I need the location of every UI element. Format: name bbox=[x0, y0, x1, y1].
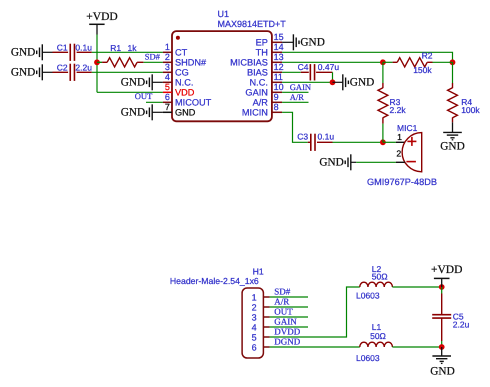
svg-text:SD#: SD# bbox=[274, 287, 291, 297]
svg-text:GND: GND bbox=[175, 108, 196, 118]
power +VDD (top) bbox=[86, 11, 117, 34]
svg-text:R1: R1 bbox=[110, 43, 121, 53]
svg-text:CG: CG bbox=[175, 68, 189, 78]
svg-text:MICBIAS: MICBIAS bbox=[230, 58, 268, 68]
wire L2 to +VDD node bbox=[392, 286, 441, 288]
ground GND (pin 4 N.C.) bbox=[121, 74, 163, 90]
pin 13 MICBIAS (U1 right) bbox=[230, 52, 283, 68]
node GND junction (bottom) bbox=[439, 344, 445, 350]
wire MICIN to C3 bbox=[282, 112, 308, 142]
wire A/R stub (H1) bbox=[270, 306, 308, 308]
svg-text:7: 7 bbox=[165, 102, 170, 112]
svg-text:DVDD: DVDD bbox=[274, 327, 300, 337]
wire GAIN stub (H1) bbox=[270, 326, 308, 328]
svg-text:OUT: OUT bbox=[135, 91, 153, 101]
svg-text:A/R: A/R bbox=[274, 297, 289, 307]
svg-text:2.2u: 2.2u bbox=[453, 320, 470, 330]
svg-text:DGND: DGND bbox=[274, 337, 300, 347]
pin 10 GAIN (U1 right) bbox=[245, 82, 283, 98]
svg-text:1: 1 bbox=[252, 292, 257, 302]
pin 12 BIAS (U1 right) bbox=[247, 62, 284, 78]
svg-text:2: 2 bbox=[252, 302, 257, 312]
svg-text:50Ω: 50Ω bbox=[370, 331, 386, 341]
pin 7 GND (U1 left) bbox=[163, 102, 196, 118]
svg-text:MICOUT: MICOUT bbox=[175, 98, 212, 108]
svg-text:50Ω: 50Ω bbox=[372, 271, 388, 281]
resistor R4 100k bbox=[448, 62, 481, 122]
svg-text:0.47u: 0.47u bbox=[318, 62, 340, 72]
power +VDD (bottom) bbox=[431, 264, 462, 287]
inductor L2 50 ohm bbox=[356, 264, 392, 301]
pin 6 (H1) bbox=[252, 342, 270, 352]
wire TH to R2/R4 node bbox=[282, 52, 452, 62]
ground GND (MIC pin 2) bbox=[319, 154, 356, 170]
pin 3 CG (U1 left) bbox=[163, 62, 189, 78]
pin 1 CT (U1 left) bbox=[163, 42, 188, 58]
net label SD# (H1) bbox=[274, 287, 291, 297]
svg-text:GND: GND bbox=[121, 107, 145, 119]
svg-text:1: 1 bbox=[397, 132, 402, 142]
svg-text:8: 8 bbox=[274, 102, 279, 112]
svg-text:0.1u: 0.1u bbox=[75, 43, 92, 53]
pin 6 MICOUT (U1 left) bbox=[163, 92, 212, 108]
svg-text:Header-Male-2.54_1x6: Header-Male-2.54_1x6 bbox=[170, 276, 259, 286]
svg-text:C3: C3 bbox=[297, 131, 308, 141]
pin 11 N.C. (U1 right) bbox=[250, 72, 283, 88]
pin 14 TH (U1 right) bbox=[256, 42, 284, 58]
svg-text:A/R: A/R bbox=[253, 98, 269, 108]
connector H1 body bbox=[242, 288, 263, 358]
svg-text:150k: 150k bbox=[413, 65, 432, 75]
wire GAIN stub bbox=[282, 91, 308, 93]
net label GAIN (H1) bbox=[274, 317, 297, 327]
label U1 bbox=[218, 9, 230, 19]
ground GND (pin 7) bbox=[121, 104, 163, 120]
svg-text:C4: C4 bbox=[298, 62, 309, 72]
svg-text:4: 4 bbox=[252, 322, 257, 332]
resistor R1 1k bbox=[97, 43, 143, 67]
svg-text:GAIN: GAIN bbox=[290, 82, 311, 92]
svg-text:5: 5 bbox=[252, 332, 257, 342]
svg-text:2: 2 bbox=[165, 52, 170, 62]
svg-text:10: 10 bbox=[274, 82, 284, 92]
svg-text:1k: 1k bbox=[128, 43, 138, 53]
wire BIAS to C4 bbox=[282, 71, 301, 73]
capacitor C3 0.1u bbox=[297, 131, 334, 151]
wire C1 to pin CT bbox=[92, 51, 163, 53]
svg-text:GND: GND bbox=[121, 77, 145, 89]
pin 5 (H1) bbox=[252, 332, 270, 342]
capacitor C4 0.47u bbox=[298, 62, 340, 82]
node C4/GND junction bbox=[330, 79, 336, 85]
svg-text:13: 13 bbox=[274, 52, 284, 62]
svg-text:A/R: A/R bbox=[290, 92, 305, 102]
wire SD# stub (H1) bbox=[270, 296, 308, 298]
wire R1 to pin SHDN# bbox=[144, 61, 163, 63]
svg-text:14: 14 bbox=[274, 42, 284, 52]
svg-text:GMI9767P-48DB: GMI9767P-48DB bbox=[367, 177, 437, 187]
wire node to MIC pin 1 bbox=[383, 141, 396, 143]
svg-text:9: 9 bbox=[274, 92, 279, 102]
label MIC1 bbox=[397, 123, 418, 133]
net label A/R bbox=[290, 92, 305, 102]
svg-text:L0603: L0603 bbox=[356, 353, 380, 363]
svg-text:EP: EP bbox=[256, 38, 268, 48]
svg-text:15: 15 bbox=[274, 32, 284, 42]
inductor L1 50 ohm bbox=[356, 322, 392, 363]
svg-text:6: 6 bbox=[252, 342, 257, 352]
net label GAIN bbox=[290, 82, 311, 92]
wire L1 to GND node bbox=[392, 346, 441, 348]
svg-text:GND: GND bbox=[319, 157, 343, 169]
pin 8 MICIN (U1 right) bbox=[242, 102, 282, 118]
svg-text:1: 1 bbox=[165, 42, 170, 52]
svg-text:4: 4 bbox=[165, 72, 170, 82]
svg-text:6: 6 bbox=[165, 92, 170, 102]
wire GND to MIC pin 2 bbox=[356, 161, 396, 163]
node +VDD/R1 junction bbox=[94, 59, 100, 65]
wire pin 11 to GND node bbox=[282, 81, 332, 83]
ground GND (bottom) bbox=[430, 347, 454, 377]
pin 4 N.C. (U1 left) bbox=[163, 72, 193, 88]
svg-text:OUT: OUT bbox=[274, 307, 293, 317]
svg-text:GAIN: GAIN bbox=[274, 317, 297, 327]
wire C2 to pin CG bbox=[92, 71, 163, 73]
svg-text:GND: GND bbox=[440, 140, 464, 152]
svg-text:TH: TH bbox=[256, 48, 268, 58]
svg-text:GND: GND bbox=[11, 67, 35, 79]
net label OUT bbox=[135, 91, 153, 101]
wire A/R stub bbox=[282, 101, 308, 103]
ground GND (R4) bbox=[440, 122, 464, 152]
svg-text:MICIN: MICIN bbox=[242, 108, 268, 118]
node MICBIAS junction bbox=[380, 59, 386, 65]
label Header-Male-2.54_1x6 bbox=[170, 276, 259, 286]
svg-text:GND: GND bbox=[350, 77, 374, 89]
net label OUT (H1) bbox=[274, 307, 293, 317]
net label DGND bbox=[274, 337, 300, 347]
pin 9 A/R (U1 right) bbox=[253, 92, 283, 108]
microphone MIC1 body bbox=[402, 133, 422, 172]
svg-text:SD#: SD# bbox=[145, 51, 161, 61]
label H1 bbox=[253, 267, 264, 277]
svg-text:GND: GND bbox=[11, 47, 35, 59]
node TH/R2/R4 junction bbox=[450, 59, 456, 65]
op-amp U1 MAX9814ETD+T body bbox=[172, 31, 272, 121]
svg-text:2.2u: 2.2u bbox=[75, 63, 92, 73]
pin 2 (H1) bbox=[252, 302, 270, 312]
capacitor C5 2.2u bbox=[432, 287, 469, 347]
svg-text:C2: C2 bbox=[57, 63, 68, 73]
svg-text:3: 3 bbox=[252, 312, 257, 322]
wire DVDD to L2 bbox=[270, 287, 360, 337]
svg-text:R2: R2 bbox=[422, 50, 433, 60]
wire +VDD vertical bbox=[96, 35, 98, 93]
svg-text:N.C.: N.C. bbox=[250, 78, 268, 88]
wire MICBIAS to R2/R3 node bbox=[282, 61, 383, 63]
wire VDD to pin 5 bbox=[97, 91, 163, 93]
svg-text:H1: H1 bbox=[253, 267, 264, 277]
resistor R2 150k bbox=[383, 50, 453, 75]
svg-text:2.2k: 2.2k bbox=[390, 105, 407, 115]
ground GND (C4) bbox=[333, 74, 375, 90]
svg-text:MAX9814ETD+T: MAX9814ETD+T bbox=[218, 19, 287, 29]
wire OUT stub (H1) bbox=[270, 316, 308, 318]
net label SD# bbox=[145, 51, 161, 61]
svg-text:GAIN: GAIN bbox=[245, 88, 267, 98]
ground GND (C2) bbox=[11, 64, 53, 80]
net label DVDD bbox=[274, 327, 300, 337]
wire DGND to L1 bbox=[270, 346, 360, 348]
microphone MIC1 pin 1 bbox=[396, 132, 405, 142]
pin 4 (H1) bbox=[252, 322, 270, 332]
label MAX9814ETD+T bbox=[218, 19, 287, 29]
wire C3 to MICIN node bbox=[333, 141, 383, 143]
svg-text:VDD: VDD bbox=[175, 88, 195, 98]
svg-text:U1: U1 bbox=[218, 9, 230, 19]
svg-text:N.C.: N.C. bbox=[175, 78, 193, 88]
svg-text:GND: GND bbox=[300, 37, 324, 49]
pin 1 (H1) bbox=[252, 292, 270, 302]
svg-text:100k: 100k bbox=[461, 105, 480, 115]
node +VDD junction (bottom) bbox=[439, 284, 445, 290]
svg-text:L0603: L0603 bbox=[356, 291, 380, 301]
svg-text:11: 11 bbox=[274, 72, 283, 82]
svg-text:12: 12 bbox=[274, 62, 284, 72]
pin 3 (H1) bbox=[252, 312, 270, 322]
net label A/R (H1) bbox=[274, 297, 289, 307]
svg-text:CT: CT bbox=[175, 48, 188, 58]
label GMI9767P-48DB bbox=[367, 177, 437, 187]
svg-text:BIAS: BIAS bbox=[247, 68, 268, 78]
microphone MIC1 pin 2 bbox=[396, 149, 405, 163]
svg-text:+VDD: +VDD bbox=[86, 11, 117, 23]
pin 2 SHDN# (U1 left) bbox=[163, 52, 207, 68]
svg-text:5: 5 bbox=[165, 82, 170, 92]
resistor R3 2.2k bbox=[378, 62, 406, 142]
capacitor C2 2.2u bbox=[53, 63, 93, 81]
svg-text:0.1u: 0.1u bbox=[318, 131, 335, 141]
ground GND (pin 15 EP) bbox=[282, 34, 325, 50]
wire OUT to pin MICOUT bbox=[146, 101, 163, 103]
svg-text:SHDN#: SHDN# bbox=[175, 58, 207, 68]
capacitor C1 0.1u bbox=[53, 43, 93, 61]
svg-text:+VDD: +VDD bbox=[431, 264, 462, 276]
svg-text:MIC1: MIC1 bbox=[397, 123, 418, 133]
pin 5 VDD (U1 left) bbox=[163, 82, 195, 98]
pin 15 EP (U1 right) bbox=[256, 32, 284, 48]
svg-text:3: 3 bbox=[165, 62, 170, 72]
ground GND (C1) bbox=[11, 44, 53, 60]
node R3/C3/MIC junction bbox=[380, 139, 386, 145]
svg-text:GND: GND bbox=[430, 365, 454, 377]
svg-text:2: 2 bbox=[396, 149, 401, 159]
svg-text:C1: C1 bbox=[57, 43, 68, 53]
